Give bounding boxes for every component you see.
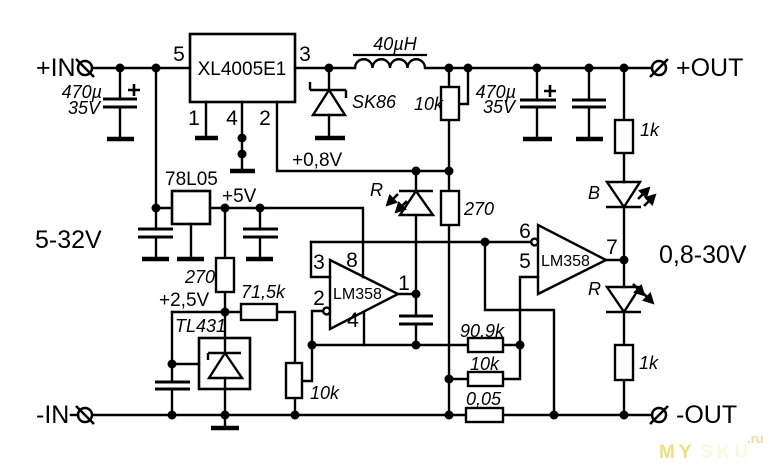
svg-text:78L05: 78L05: [165, 169, 218, 190]
svg-text:10k: 10k: [310, 383, 340, 403]
svg-text:XL4005E1: XL4005E1: [198, 59, 287, 80]
svg-text:71,5k: 71,5k: [241, 282, 286, 302]
svg-text:8: 8: [346, 249, 358, 272]
svg-text:LM358: LM358: [333, 286, 382, 303]
svg-text:4: 4: [347, 309, 359, 332]
svg-text:R: R: [588, 279, 601, 299]
svg-text:270: 270: [184, 267, 215, 287]
svg-text:SK86: SK86: [352, 92, 397, 112]
svg-text:270: 270: [463, 199, 494, 219]
svg-text:0,05: 0,05: [466, 389, 502, 409]
svg-text:-OUT: -OUT: [676, 401, 737, 429]
svg-text:R: R: [370, 180, 383, 200]
svg-text:0,8-30V: 0,8-30V: [659, 241, 747, 269]
svg-text:1k: 1k: [640, 120, 660, 140]
svg-text:+5V: +5V: [222, 186, 257, 207]
svg-text:MY: MY: [659, 442, 696, 463]
svg-text:6: 6: [519, 220, 531, 243]
svg-text:2: 2: [259, 107, 271, 130]
svg-text:7: 7: [606, 236, 618, 259]
svg-text:40µH: 40µH: [373, 34, 417, 54]
svg-text:10k: 10k: [414, 94, 444, 114]
svg-text:.ru: .ru: [747, 431, 764, 446]
svg-text:+OUT: +OUT: [676, 54, 743, 82]
svg-text:1: 1: [188, 107, 200, 130]
svg-text:SKU: SKU: [700, 442, 752, 463]
svg-text:B: B: [588, 183, 600, 203]
svg-text:4: 4: [226, 107, 238, 130]
svg-text:90,9k: 90,9k: [460, 321, 505, 341]
svg-text:+IN: +IN: [36, 54, 76, 82]
svg-text:1k: 1k: [639, 353, 659, 373]
svg-text:+2,5V: +2,5V: [159, 290, 210, 311]
svg-text:+0,8V: +0,8V: [292, 150, 343, 171]
svg-text:1: 1: [398, 272, 410, 295]
svg-text:35V: 35V: [483, 97, 517, 117]
svg-text:LM358: LM358: [541, 253, 590, 270]
svg-text:10k: 10k: [470, 354, 500, 374]
svg-text:2: 2: [313, 287, 325, 310]
svg-text:35V: 35V: [68, 98, 102, 118]
svg-text:-IN: -IN: [36, 401, 69, 429]
svg-text:5-32V: 5-32V: [35, 226, 102, 254]
svg-text:TL431: TL431: [175, 316, 226, 336]
svg-text:3: 3: [313, 251, 325, 274]
svg-text:3: 3: [299, 43, 311, 66]
svg-text:5: 5: [519, 250, 531, 273]
svg-text:5: 5: [173, 43, 185, 66]
